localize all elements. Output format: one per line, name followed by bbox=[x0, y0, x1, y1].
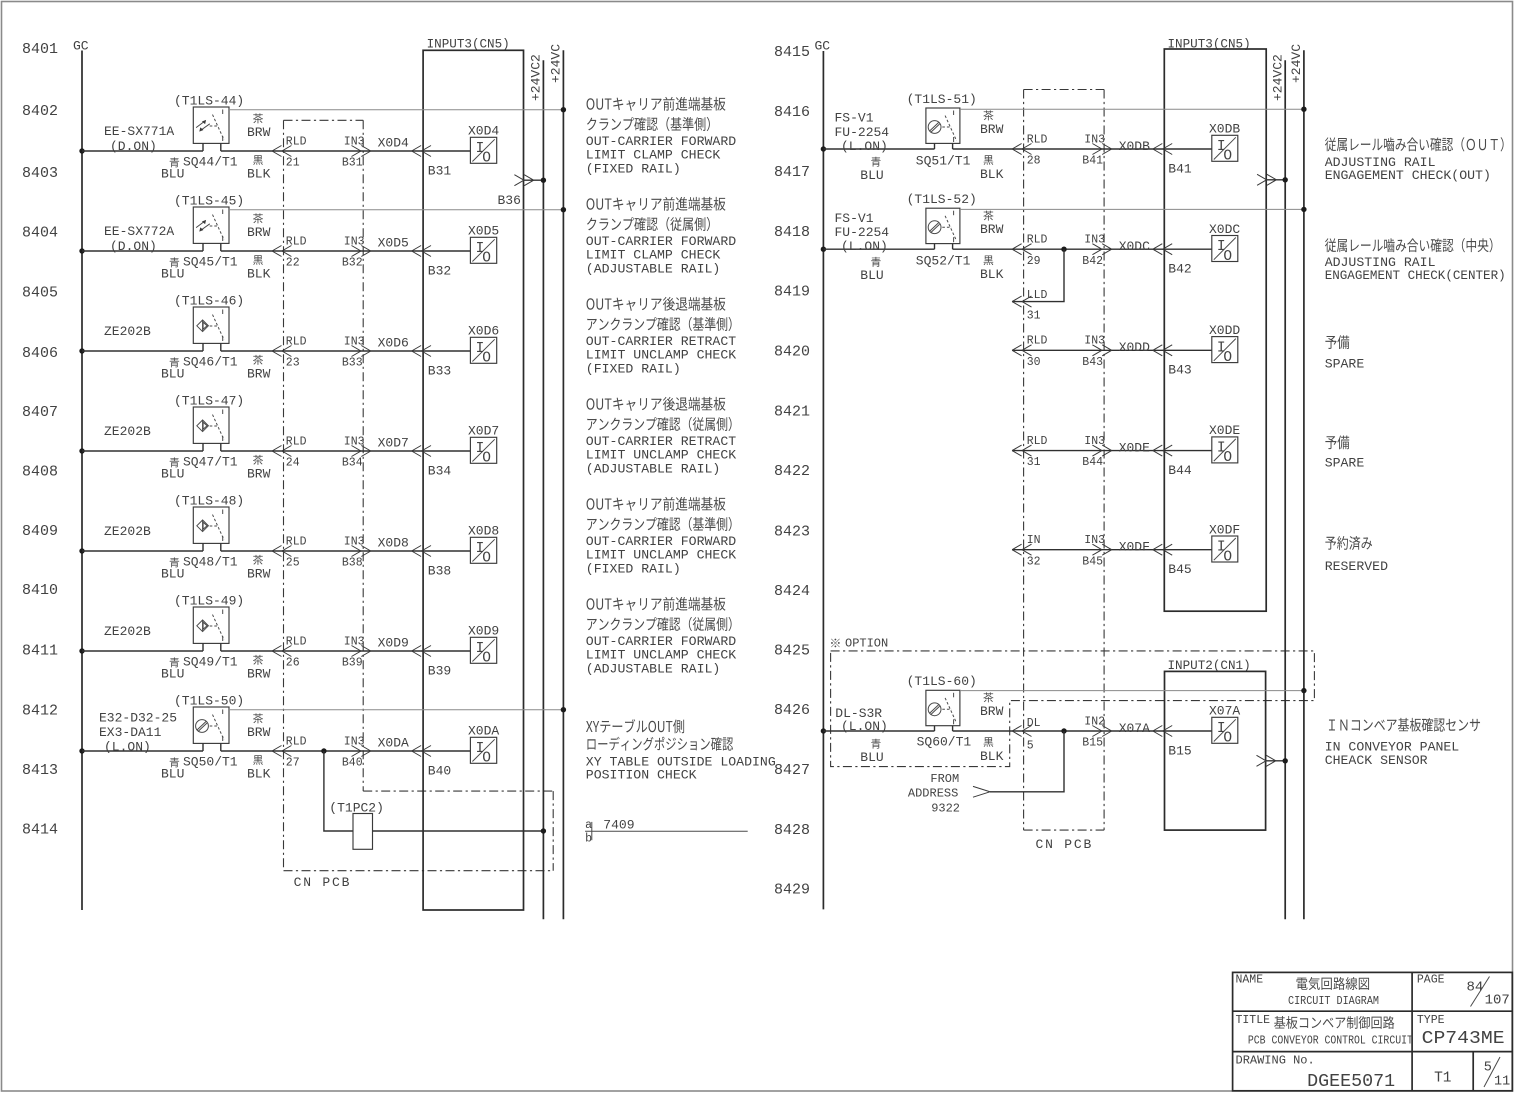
wire INPUT2 edge to I/O X07A bbox=[1164, 730, 1212, 732]
svg-text:8415: 8415 bbox=[774, 44, 810, 61]
svg-text:BRW: BRW bbox=[980, 222, 1004, 237]
svg-text:8408: 8408 bbox=[22, 464, 58, 481]
svg-text:CN PCB: CN PCB bbox=[294, 875, 352, 890]
connector pin RLD/23 at T1 cable bbox=[272, 335, 307, 369]
svg-text:ZE202B: ZE202B bbox=[104, 324, 151, 339]
svg-text:IN2: IN2 bbox=[1084, 715, 1105, 728]
svg-text:FS-V1: FS-V1 bbox=[835, 211, 874, 226]
svg-text:SQ52/T1: SQ52/T1 bbox=[916, 254, 971, 269]
junction on row SQ50 wire bbox=[321, 748, 326, 753]
svg-text:8409: 8409 bbox=[22, 523, 58, 540]
wire lead label BLU bbox=[860, 157, 883, 183]
description text row y=651 bbox=[586, 597, 736, 677]
wire sensor SQ48/T1 to INPUT3 bbox=[221, 550, 423, 552]
svg-text:EE-SX772A: EE-SX772A bbox=[104, 224, 174, 239]
svg-text:SQ46/T1: SQ46/T1 bbox=[183, 354, 238, 369]
description text row y=351 bbox=[586, 297, 736, 377]
svg-text:O: O bbox=[1223, 450, 1232, 466]
label BRW (top lead) SQ51/T1 bbox=[980, 110, 1004, 137]
svg-text:(T1LS-48): (T1LS-48) bbox=[174, 494, 244, 509]
svg-text:B38: B38 bbox=[428, 563, 451, 578]
svg-text:8424: 8424 bbox=[774, 583, 810, 600]
svg-text:B15: B15 bbox=[1168, 743, 1191, 758]
svg-text:BLU: BLU bbox=[860, 268, 883, 283]
device label EE-SX772A bbox=[104, 224, 174, 254]
svg-text:B33: B33 bbox=[428, 363, 451, 378]
svg-text:INPUT3(CN5): INPUT3(CN5) bbox=[427, 38, 510, 52]
svg-text:(T1LS-52): (T1LS-52) bbox=[907, 192, 977, 207]
I/O port X0D6 bbox=[468, 324, 499, 367]
svg-text:(L.ON): (L.ON) bbox=[104, 740, 151, 755]
wire sensor SQ52/T1 to INPUT3 bbox=[953, 248, 1165, 250]
svg-text:B34: B34 bbox=[428, 463, 452, 478]
wire lead label BLU bbox=[860, 257, 883, 283]
svg-text:X0DA: X0DA bbox=[468, 724, 499, 739]
svg-text:B33: B33 bbox=[342, 357, 363, 370]
description spare (row 8420) bbox=[1325, 335, 1365, 371]
wire GC to sensor SQ44/T1 bbox=[82, 150, 203, 152]
I/O port X0DE bbox=[1209, 423, 1240, 466]
svg-text:B41: B41 bbox=[1168, 161, 1192, 176]
svg-text:RLD: RLD bbox=[1027, 234, 1048, 247]
svg-text:(T1LS-47): (T1LS-47) bbox=[174, 394, 244, 409]
connector pin RLD/27 at T1 cable bbox=[272, 735, 307, 769]
svg-text:(FIXED RAIL): (FIXED RAIL) bbox=[586, 361, 681, 376]
svg-text:PAGE: PAGE bbox=[1417, 974, 1445, 987]
wire FROM-ADDRESS branch bbox=[990, 731, 1064, 792]
svg-text:RLD: RLD bbox=[286, 235, 307, 248]
svg-text:O: O bbox=[482, 751, 491, 767]
I/O port X0DA bbox=[468, 724, 499, 767]
svg-text:26: 26 bbox=[286, 657, 300, 670]
svg-text:BLU: BLU bbox=[161, 767, 184, 782]
wire lead label BLU bbox=[161, 257, 184, 281]
connector pin IN3/B41 at T1 cable bbox=[1082, 133, 1111, 167]
svg-text:BLK: BLK bbox=[980, 167, 1004, 182]
svg-text:IN3: IN3 bbox=[1084, 133, 1105, 146]
svg-text:(L.ON): (L.ON) bbox=[841, 719, 888, 734]
connector pin LLD/31 at T1 cable bbox=[1012, 289, 1047, 323]
svg-text:+24VC2: +24VC2 bbox=[1271, 54, 1286, 101]
title block TYPE cell CP743ME bbox=[1417, 1014, 1505, 1049]
svg-text:SQ50/T1: SQ50/T1 bbox=[183, 754, 238, 769]
svg-text:(T1LS-51): (T1LS-51) bbox=[907, 92, 977, 107]
svg-text:(D.ON): (D.ON) bbox=[110, 139, 157, 154]
I/O port X0DF bbox=[1209, 522, 1240, 565]
wire GC to sensor SQ51/T1 bbox=[823, 148, 934, 150]
device label FS-V1 bbox=[835, 211, 890, 254]
svg-text:RLD: RLD bbox=[1027, 435, 1048, 448]
connector pin B39 at INPUT3 bbox=[412, 646, 452, 679]
title block PAGE cell 84/107 bbox=[1417, 974, 1510, 1009]
svg-text:X07A: X07A bbox=[1209, 704, 1240, 719]
wire GC to sensor SQ49/T1 bbox=[82, 650, 203, 652]
svg-text:X0DA: X0DA bbox=[378, 736, 409, 751]
sensor SQ48/T1 (T1LS-48) type ZE202B bbox=[193, 507, 229, 551]
svg-text:B36: B36 bbox=[498, 193, 521, 208]
svg-text:X0D5: X0D5 bbox=[378, 236, 409, 251]
svg-text:SQ48/T1: SQ48/T1 bbox=[183, 554, 238, 569]
svg-text:(L.ON): (L.ON) bbox=[841, 239, 888, 254]
wire INPUT3 edge to I/O X0DE bbox=[1164, 450, 1212, 452]
svg-text:NAME: NAME bbox=[1236, 974, 1264, 987]
connector pin RLD/21 at T1 cable bbox=[272, 135, 307, 169]
wire lead label BLK bbox=[247, 755, 271, 781]
svg-text:8425: 8425 bbox=[774, 642, 810, 659]
node on GC bus row SQ45/T1 bbox=[79, 248, 84, 253]
wire sensor SQ52/T1 top lead to +24VC bbox=[960, 207, 1307, 212]
description text XY table loading position bbox=[586, 719, 776, 782]
wire GC to sensor SQ60 bbox=[823, 730, 934, 732]
svg-text:(FIXED RAIL): (FIXED RAIL) bbox=[586, 161, 681, 176]
connector pin B42 at INPUT3 bbox=[1153, 244, 1192, 277]
svg-text:X0D4: X0D4 bbox=[468, 124, 499, 139]
svg-text:5: 5 bbox=[1027, 740, 1034, 753]
connector pin IN3/B34 at T1 cable bbox=[342, 435, 371, 469]
label BRW (top lead) SQ60 bbox=[980, 692, 1004, 719]
svg-text:+24VC: +24VC bbox=[1289, 44, 1304, 83]
wire spare row X0DD bbox=[1012, 349, 1164, 351]
wire sensor SQ49/T1 to INPUT3 bbox=[221, 650, 423, 652]
svg-text:8406: 8406 bbox=[22, 345, 58, 362]
svg-text:BRW: BRW bbox=[247, 567, 271, 582]
I/O port X0D5 bbox=[468, 224, 499, 267]
wire sensor SQ44/T1 to INPUT3 bbox=[221, 150, 423, 152]
svg-text:B44: B44 bbox=[1082, 456, 1103, 469]
wire sensor SQ51/T1 to INPUT3 bbox=[953, 148, 1165, 150]
svg-text:FU-2254: FU-2254 bbox=[835, 225, 890, 240]
svg-text:RLD: RLD bbox=[1027, 133, 1048, 146]
connector pin RLD/24 at T1 cable bbox=[272, 435, 307, 469]
sensor SQ52/T1 (T1LS-52) fiber unit bbox=[926, 208, 960, 249]
svg-text:(D.ON): (D.ON) bbox=[110, 239, 157, 254]
connector pin IN3/B40 at T1 cable bbox=[342, 735, 371, 769]
wire GC to sensor SQ52/T1 bbox=[823, 248, 934, 250]
GC bus (left) bbox=[73, 39, 89, 911]
sensor SQ47/T1 (T1LS-47) type ZE202B bbox=[193, 407, 229, 451]
I/O port X0DB bbox=[1209, 122, 1240, 165]
svg-text:O: O bbox=[1223, 149, 1232, 165]
svg-text:CP743ME: CP743ME bbox=[1422, 1028, 1505, 1049]
svg-text:8405: 8405 bbox=[22, 284, 58, 301]
svg-text:8418: 8418 bbox=[774, 224, 810, 241]
svg-text:BRW: BRW bbox=[247, 367, 271, 382]
svg-text:TITLE: TITLE bbox=[1236, 1014, 1271, 1027]
svg-text:OPTION: OPTION bbox=[845, 637, 888, 651]
title block NAME cell bbox=[1236, 974, 1380, 1009]
wire INPUT3 edge to I/O X0DB bbox=[1164, 148, 1212, 150]
wire lead label BLU bbox=[161, 657, 184, 681]
wire lead label BRW bbox=[247, 455, 271, 482]
label BRW (top lead) SQ45/T1 bbox=[247, 213, 271, 240]
INPUT3(CN5) connector box (left) bbox=[423, 38, 523, 911]
svg-text:8411: 8411 bbox=[22, 643, 58, 660]
svg-text:IN3: IN3 bbox=[344, 635, 365, 648]
connector pin IN3/B32 at T1 cable bbox=[342, 235, 371, 269]
svg-text:T1: T1 bbox=[1434, 1071, 1451, 1087]
svg-text:30: 30 bbox=[1027, 356, 1041, 369]
svg-text:DGEE5071: DGEE5071 bbox=[1307, 1072, 1395, 1092]
svg-text:B40: B40 bbox=[342, 757, 363, 770]
I/O port X07A bbox=[1209, 704, 1240, 747]
description spare (row 8422) bbox=[1325, 435, 1365, 470]
svg-text:8401: 8401 bbox=[22, 41, 58, 58]
svg-text:EX3-DA11: EX3-DA11 bbox=[99, 725, 162, 740]
connector pin RLD/28 at T1 cable bbox=[1012, 133, 1047, 167]
svg-text:21: 21 bbox=[286, 157, 300, 170]
svg-text:IN3: IN3 bbox=[344, 735, 365, 748]
svg-text:SQ49/T1: SQ49/T1 bbox=[183, 654, 238, 669]
connector pin RLD/22 at T1 cable bbox=[272, 235, 307, 269]
wire lead label BRW bbox=[247, 655, 271, 682]
wire sensor SQ60 to INPUT2 bbox=[953, 730, 1165, 732]
svg-text:22: 22 bbox=[286, 257, 300, 270]
reference FROM ADDRESS 9322 arrow bbox=[908, 772, 990, 816]
svg-text:B32: B32 bbox=[428, 263, 451, 278]
svg-text:BRW: BRW bbox=[247, 125, 271, 140]
GC bus (right) bbox=[815, 39, 831, 910]
line number column 8415-8429 bbox=[774, 44, 810, 898]
wire sensor SQ45/T1 top lead to +24VC bbox=[229, 207, 566, 212]
wire lead label BLK bbox=[980, 737, 1004, 764]
svg-text:(T1LS-44): (T1LS-44) bbox=[174, 94, 244, 109]
device label E32-D32-25 bbox=[99, 711, 177, 755]
connector pin B40 at INPUT3 bbox=[412, 746, 452, 779]
line number column 8401-8414 bbox=[22, 41, 58, 839]
wire sensor SQ44/T1 top lead to +24VC bbox=[229, 107, 566, 112]
wire lead label BLU bbox=[161, 357, 184, 381]
wire INPUT3 edge to I/O X0D7 bbox=[423, 450, 470, 452]
svg-text:X0D7: X0D7 bbox=[378, 436, 409, 451]
svg-text:24: 24 bbox=[286, 457, 300, 470]
svg-text:X0DF: X0DF bbox=[1119, 540, 1150, 555]
wire lead label BLK bbox=[980, 155, 1004, 182]
connector pin IN3/B33 at T1 cable bbox=[342, 335, 371, 369]
svg-text:7409: 7409 bbox=[603, 818, 634, 833]
node on GC bus row SQ47/T1 bbox=[79, 448, 84, 453]
connector pin B32 at INPUT3 bbox=[412, 246, 452, 279]
svg-text:X0DE: X0DE bbox=[1209, 423, 1240, 438]
svg-text:ZE202B: ZE202B bbox=[104, 524, 151, 539]
svg-text:X0D8: X0D8 bbox=[378, 536, 409, 551]
svg-text:BRW: BRW bbox=[980, 122, 1004, 137]
connector pin B31 at INPUT3 bbox=[412, 146, 452, 179]
svg-text:(L.ON): (L.ON) bbox=[841, 139, 888, 154]
wire lead label BLU bbox=[161, 457, 184, 481]
svg-text:(T1LS-45): (T1LS-45) bbox=[174, 194, 244, 209]
svg-text:X0D6: X0D6 bbox=[468, 324, 499, 339]
connector pin IN2/B15 at T1 cable bbox=[1082, 715, 1111, 749]
svg-text:BLU: BLU bbox=[161, 667, 184, 682]
svg-text:X0D6: X0D6 bbox=[378, 336, 409, 351]
svg-text:28: 28 bbox=[1027, 155, 1041, 168]
node on GC bus row SQ50/T1 bbox=[79, 748, 84, 753]
I/O port X0DC bbox=[1209, 222, 1240, 265]
svg-text:BLU: BLU bbox=[161, 467, 184, 482]
connector pin RLD/26 at T1 cable bbox=[272, 635, 307, 669]
connector pin DL/5 at T1 cable bbox=[1012, 717, 1041, 753]
description adjusting rail engagement check (CENTER) bbox=[1325, 238, 1506, 283]
sensor SQ46/T1 (T1LS-46) type ZE202B bbox=[193, 307, 229, 351]
svg-text:X07A: X07A bbox=[1119, 721, 1150, 736]
description IN conveyor panel check sensor bbox=[1325, 718, 1480, 768]
svg-text:ENGAGEMENT CHECK(OUT): ENGAGEMENT CHECK(OUT) bbox=[1325, 168, 1491, 183]
wire down to power supply T1PC2 bbox=[324, 751, 353, 831]
description text row y=451 bbox=[586, 397, 736, 477]
svg-text:BLK: BLK bbox=[247, 167, 271, 182]
svg-text:SQ51/T1: SQ51/T1 bbox=[916, 154, 971, 169]
connector pin B44 at INPUT3 bbox=[1153, 445, 1192, 478]
T1 cable dash-dot boundary (right) bbox=[1024, 90, 1105, 831]
wire T1PC2 to +24VC2 bbox=[373, 828, 547, 833]
svg-text:(T1LS-49): (T1LS-49) bbox=[174, 594, 244, 609]
connector pin B33 at INPUT3 bbox=[412, 346, 452, 379]
description text row y=251 bbox=[586, 197, 736, 277]
wire lead label BLU bbox=[161, 557, 184, 581]
wire lead label BLU bbox=[860, 739, 883, 765]
wire LLD branch bbox=[1012, 249, 1064, 301]
wire spare row X0DF bbox=[1012, 549, 1164, 551]
+24VC supply line (right) bbox=[1289, 44, 1304, 920]
svg-text:B41: B41 bbox=[1082, 155, 1103, 168]
svg-text:BLU: BLU bbox=[161, 567, 184, 582]
connector pin RLD/30 at T1 cable bbox=[1012, 335, 1047, 369]
device label FS-V1 bbox=[835, 111, 890, 154]
svg-text:BRW: BRW bbox=[980, 704, 1004, 719]
wire GC to sensor SQ48/T1 bbox=[82, 550, 203, 552]
wire INPUT3 edge to I/O X0DC bbox=[1164, 248, 1212, 250]
title block frame bbox=[1233, 972, 1513, 1090]
svg-text:X0D5: X0D5 bbox=[468, 224, 499, 239]
svg-text:RLD: RLD bbox=[286, 635, 307, 648]
svg-text:IN3: IN3 bbox=[344, 135, 365, 148]
svg-text:O: O bbox=[1223, 731, 1232, 747]
description reserved bbox=[1325, 536, 1388, 574]
svg-text:ZE202B: ZE202B bbox=[104, 424, 151, 439]
connector pin IN3/B42 at T1 cable bbox=[1082, 234, 1111, 268]
label BRW (top lead) SQ44/T1 bbox=[247, 113, 271, 140]
svg-text:B45: B45 bbox=[1168, 562, 1191, 577]
svg-text:O: O bbox=[1223, 350, 1232, 366]
svg-text:B43: B43 bbox=[1168, 363, 1191, 378]
svg-text:B40: B40 bbox=[428, 763, 451, 778]
svg-text:X0D9: X0D9 bbox=[378, 636, 409, 651]
svg-text:8416: 8416 bbox=[774, 104, 810, 121]
title block sheet 5/11 bbox=[1484, 1057, 1511, 1090]
svg-text:DRAWING No.: DRAWING No. bbox=[1236, 1054, 1315, 1068]
svg-text:B39: B39 bbox=[428, 663, 451, 678]
svg-text:31: 31 bbox=[1027, 456, 1041, 469]
svg-text:84: 84 bbox=[1467, 979, 1484, 995]
svg-text:27: 27 bbox=[286, 757, 300, 770]
svg-text:SPARE: SPARE bbox=[1325, 456, 1365, 471]
svg-text:8421: 8421 bbox=[774, 403, 810, 420]
connector pin B38 at INPUT3 bbox=[412, 546, 452, 579]
wire sensor SQ46/T1 to INPUT3 bbox=[221, 350, 423, 352]
svg-text:23: 23 bbox=[286, 357, 300, 370]
svg-text:BLK: BLK bbox=[980, 749, 1004, 764]
svg-text:IN3: IN3 bbox=[1084, 534, 1105, 547]
svg-text:b: b bbox=[585, 833, 592, 846]
wire INPUT3 edge to I/O X0DF bbox=[1164, 549, 1212, 551]
svg-text:32: 32 bbox=[1027, 555, 1041, 568]
svg-text:11: 11 bbox=[1494, 1075, 1510, 1090]
node on GC bus row SQ44/T1 bbox=[79, 148, 84, 153]
svg-text:IN3: IN3 bbox=[344, 335, 365, 348]
+24VC supply line (left) bbox=[549, 44, 564, 920]
svg-text:RLD: RLD bbox=[286, 735, 307, 748]
svg-text:9322: 9322 bbox=[931, 802, 960, 816]
svg-text:BLU: BLU bbox=[161, 267, 184, 282]
svg-text:BRW: BRW bbox=[247, 467, 271, 482]
svg-text:BLU: BLU bbox=[860, 168, 883, 183]
svg-text:X0D9: X0D9 bbox=[468, 624, 499, 639]
off-page reference a/b 7409 bbox=[585, 818, 748, 846]
device label DL-S3R bbox=[835, 706, 888, 734]
sensor SQ51/T1 (T1LS-51) fiber unit bbox=[926, 108, 960, 149]
svg-text:BLK: BLK bbox=[247, 267, 271, 282]
svg-text:29: 29 bbox=[1027, 255, 1041, 268]
svg-text:BRW: BRW bbox=[247, 667, 271, 682]
svg-text:(T1LS-50): (T1LS-50) bbox=[174, 694, 244, 709]
svg-text:B42: B42 bbox=[1168, 262, 1191, 277]
connector pin B41 at INPUT3 bbox=[1153, 144, 1192, 177]
wire lead label BRW bbox=[247, 555, 271, 582]
junction LLD branch on SQ52 wire bbox=[1061, 247, 1066, 252]
wire INPUT3 edge to I/O X0D5 bbox=[423, 250, 470, 252]
svg-text:(ADJUSTABLE RAIL): (ADJUSTABLE RAIL) bbox=[586, 261, 721, 276]
wire sensor SQ47/T1 to INPUT3 bbox=[221, 450, 423, 452]
svg-text:8404: 8404 bbox=[22, 225, 58, 242]
svg-text:LLD: LLD bbox=[1027, 289, 1048, 302]
svg-text:ZE202B: ZE202B bbox=[104, 624, 151, 639]
svg-text:B38: B38 bbox=[342, 557, 363, 570]
connector pin RLD/29 at T1 cable bbox=[1012, 234, 1047, 268]
svg-text:5: 5 bbox=[1484, 1061, 1492, 1076]
wire INPUT3 edge to I/O X0DD bbox=[1164, 349, 1212, 351]
node on GC bus row SQ49/T1 bbox=[79, 648, 84, 653]
description text row y=151 bbox=[586, 97, 736, 177]
svg-text:B31: B31 bbox=[428, 163, 452, 178]
svg-text:E32-D32-25: E32-D32-25 bbox=[99, 711, 177, 726]
wire GC to sensor SQ46/T1 bbox=[82, 350, 203, 352]
title block TITLE cell bbox=[1236, 1014, 1413, 1048]
node on GC bus row SQ51/T1 bbox=[821, 146, 826, 151]
svg-text:RLD: RLD bbox=[1027, 335, 1048, 348]
svg-text:8420: 8420 bbox=[774, 344, 810, 361]
svg-text:BLK: BLK bbox=[980, 267, 1004, 282]
svg-text:RLD: RLD bbox=[286, 135, 307, 148]
wire INPUT3 right to +24VC2 (row 8417) bbox=[1257, 174, 1288, 185]
wire lead label BLU bbox=[161, 757, 184, 781]
svg-text:B15: B15 bbox=[1082, 737, 1103, 750]
svg-text:RLD: RLD bbox=[286, 535, 307, 548]
svg-text:X0D4: X0D4 bbox=[378, 136, 409, 151]
svg-text:POSITION CHECK: POSITION CHECK bbox=[586, 768, 697, 783]
svg-text:8417: 8417 bbox=[774, 164, 810, 181]
wire sensor SQ60 top lead to +24VC bbox=[960, 688, 1307, 693]
I/O port X0DD bbox=[1209, 323, 1240, 366]
node on GC bus row SQ46/T1 bbox=[79, 348, 84, 353]
wire INPUT3 edge to I/O X0DA bbox=[423, 750, 470, 752]
wire GC to sensor SQ45/T1 bbox=[82, 250, 203, 252]
connector pin IN3/B43 at T1 cable bbox=[1082, 335, 1111, 369]
power supply (T1PC2) bbox=[329, 801, 384, 850]
description adjusting rail engagement check (OUT) bbox=[1325, 137, 1504, 183]
I/O port X0D9 bbox=[468, 624, 499, 667]
label BRW (top lead) SQ50/T1 bbox=[247, 713, 271, 740]
connector pin IN3/B39 at T1 cable bbox=[342, 635, 371, 669]
